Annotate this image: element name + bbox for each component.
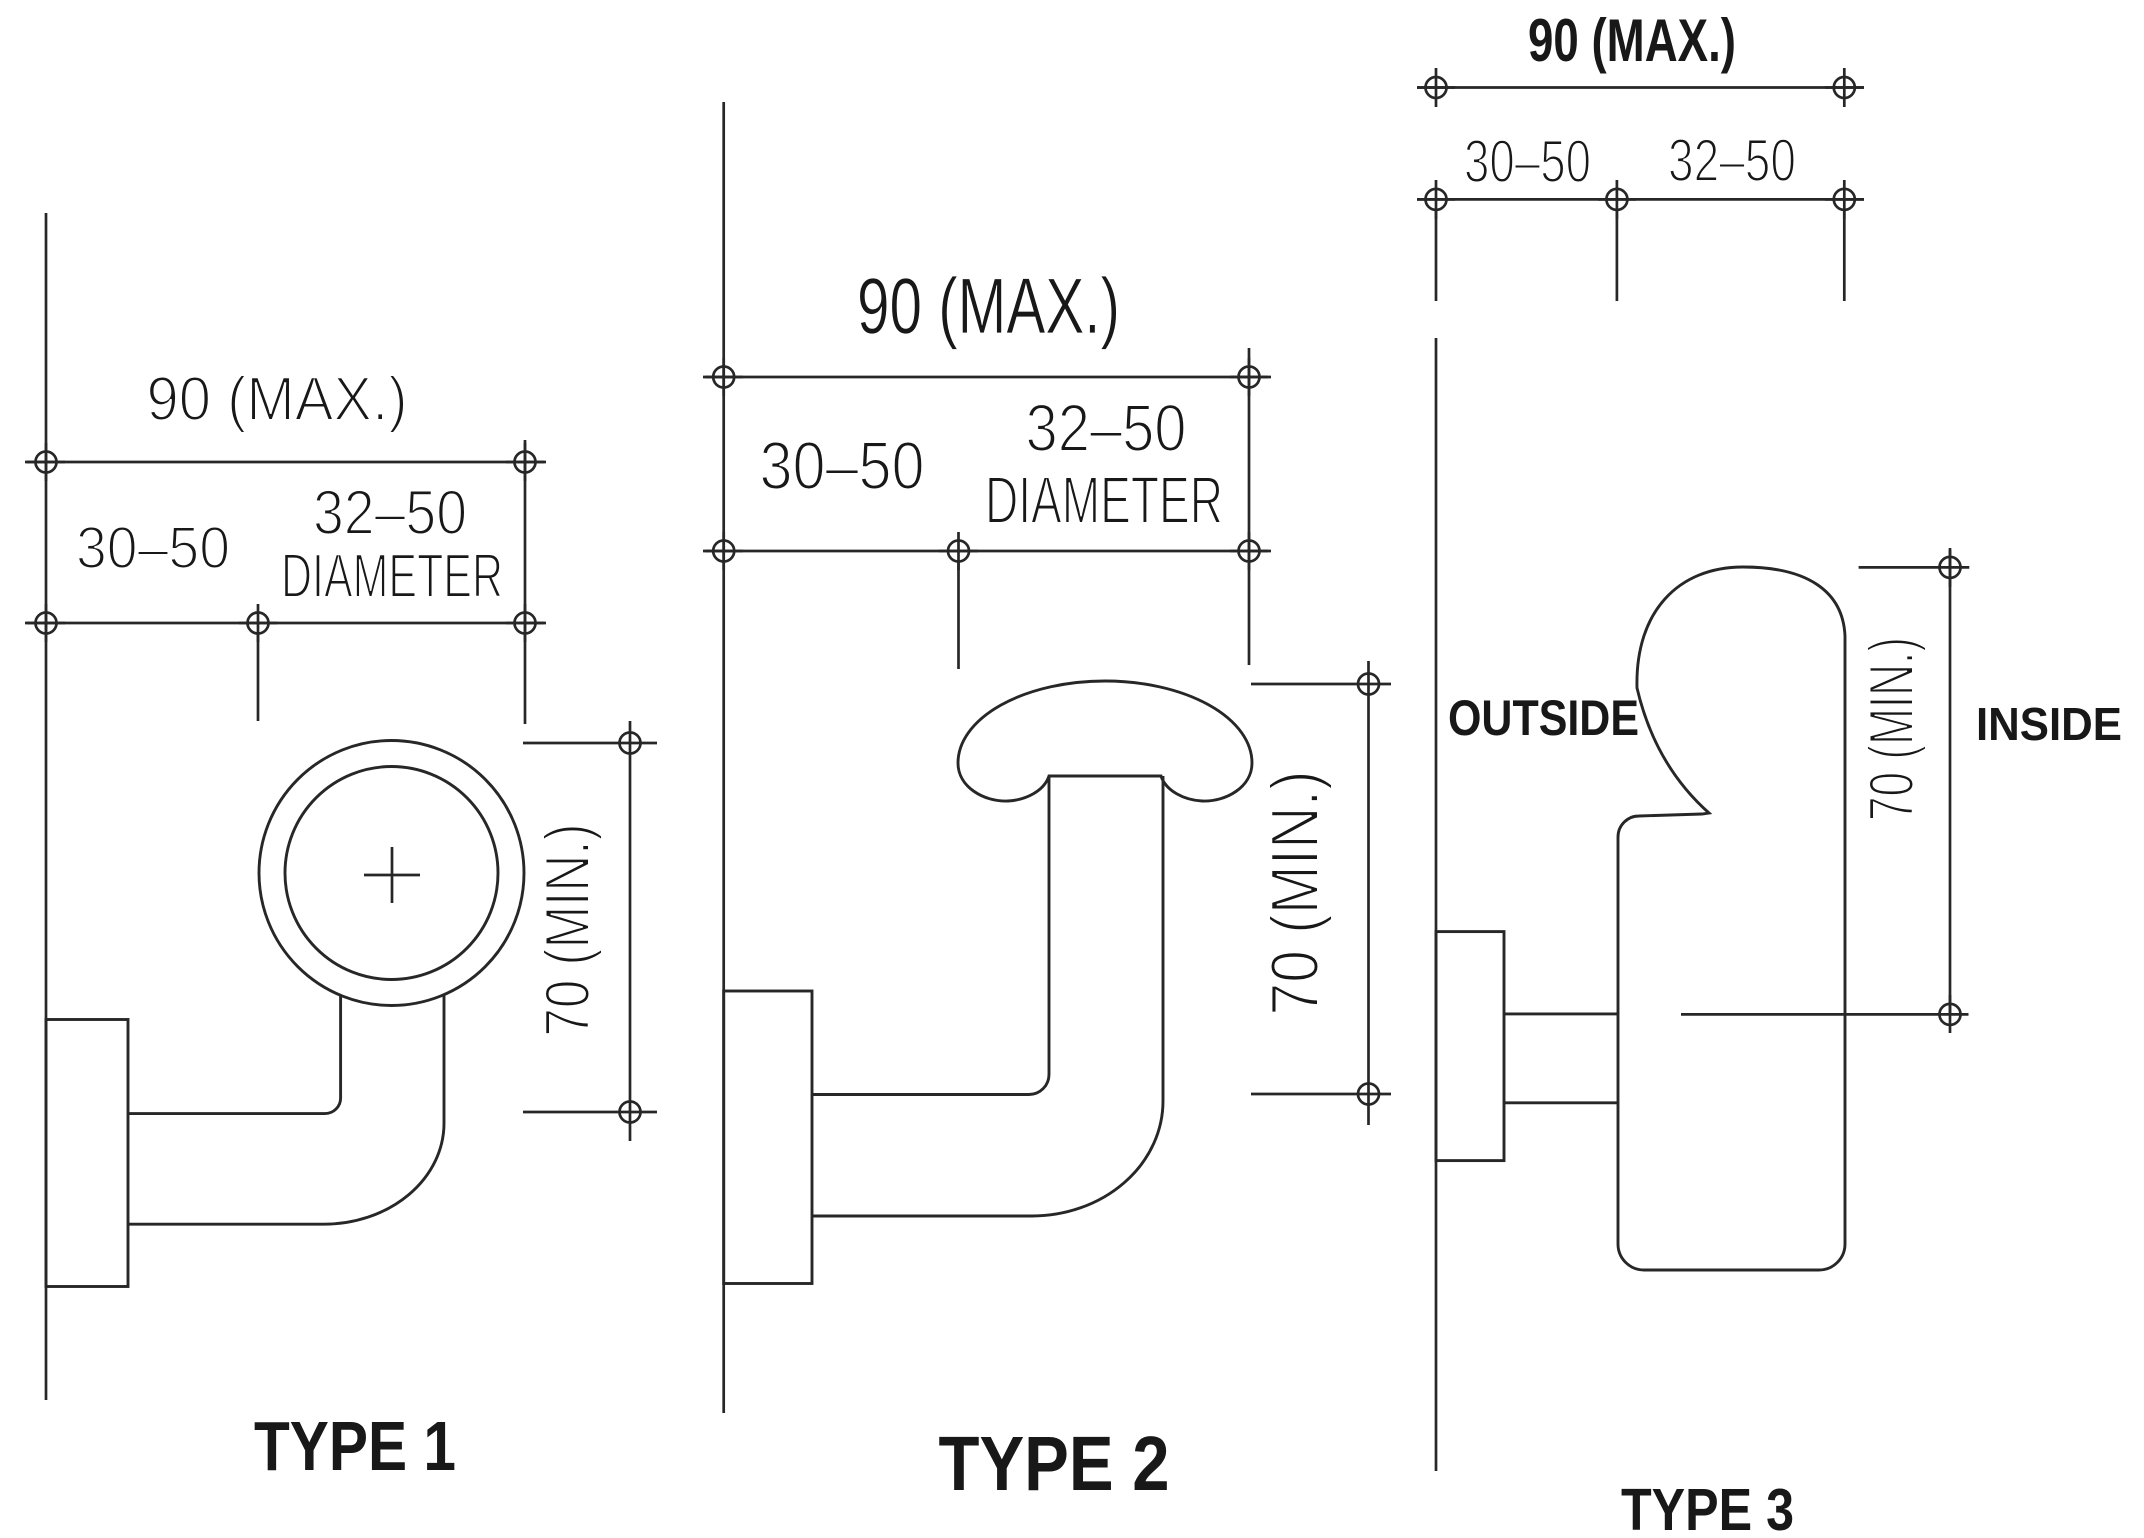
marker — [620, 1102, 641, 1123]
marker — [1230, 358, 1268, 396]
handrail inner circle T1 — [285, 767, 498, 980]
svg-text:TYPE 3: TYPE 3 — [1621, 1477, 1794, 1538]
svg-text:70 (MIN.): 70 (MIN.) — [1857, 637, 1927, 821]
dim 70 MIN T1 top tick — [523, 742, 657, 745]
dim line 30-50/32-50 T1 — [25, 622, 546, 625]
svg-text:30–50: 30–50 — [76, 515, 230, 581]
dim 70 MIN T2 bottom tick — [1251, 1093, 1391, 1096]
svg-text:90 (MAX.): 90 (MAX.) — [857, 261, 1120, 350]
marker — [1230, 532, 1268, 570]
marker — [1417, 180, 1455, 219]
marker — [27, 604, 65, 642]
svg-text:OUTSIDE: OUTSIDE — [1448, 690, 1639, 746]
bracket plate T3 — [1436, 932, 1504, 1161]
dim line 30-50/32-50 T3 — [1417, 198, 1864, 201]
svg-text:32–50: 32–50 — [313, 478, 467, 548]
marker — [1825, 180, 1864, 219]
dim line 90 MAX T2 — [703, 376, 1271, 379]
center cross T1 — [364, 847, 420, 903]
dim 70 MIN T3 top tick — [1859, 566, 1970, 569]
mushroom cap T2 — [958, 681, 1252, 801]
svg-text:TYPE 1: TYPE 1 — [254, 1407, 456, 1485]
extension line right T1 — [524, 440, 527, 724]
arm top edge T1 — [128, 995, 341, 1114]
marker — [705, 532, 743, 570]
arm bottom edge T3 — [1504, 1101, 1618, 1104]
svg-text:32–50: 32–50 — [1668, 127, 1796, 194]
marker — [1940, 548, 1961, 587]
handrail profile T3 — [1618, 567, 1845, 1270]
dim 70 MIN T3 vertical — [1949, 550, 1952, 1014]
svg-text:90 (MAX.): 90 (MAX.) — [147, 365, 408, 434]
extension line middle T1 — [257, 633, 260, 721]
svg-text:32–50: 32–50 — [1026, 391, 1187, 466]
marker — [620, 733, 641, 754]
marker — [1598, 180, 1636, 219]
bracket plate T1 — [46, 1020, 128, 1287]
bracket plate T2 — [724, 991, 812, 1284]
stem right edge T2 — [812, 776, 1163, 1216]
extension line middle T2 — [957, 561, 960, 669]
svg-text:90 (MAX.): 90 (MAX.) — [1528, 7, 1736, 74]
extension line left below T3 — [1435, 209, 1438, 301]
center line T3 — [1681, 1013, 1969, 1016]
svg-text:DIAMETER: DIAMETER — [281, 542, 503, 611]
wall line T3 — [1435, 338, 1438, 1471]
dim 70 MIN T1 bottom tick — [523, 1111, 657, 1114]
marker — [1417, 68, 1455, 107]
marker — [506, 604, 544, 642]
svg-text:TYPE 2: TYPE 2 — [939, 1421, 1170, 1507]
marker — [1358, 674, 1379, 695]
marker — [705, 358, 743, 396]
extension line middle below T3 — [1616, 209, 1619, 301]
handrail outer circle T1 — [259, 741, 524, 1006]
svg-text:30–50: 30–50 — [760, 428, 925, 504]
arm top edge T3 — [1504, 1012, 1618, 1015]
marker — [939, 532, 978, 570]
dim line 90 MAX T3 — [1417, 86, 1864, 89]
wall line T2 — [722, 102, 725, 1413]
dim line 30-50/32-50 T2 — [703, 550, 1271, 553]
dim line 90 MAX T1 — [25, 461, 546, 464]
marker — [27, 443, 65, 481]
svg-text:70 (MIN.): 70 (MIN.) — [1257, 771, 1333, 1016]
marker — [506, 443, 544, 481]
extension line right below T3 — [1843, 209, 1846, 301]
dim 70 MIN T2 vertical — [1367, 661, 1370, 1125]
wall line T1 — [45, 213, 48, 1400]
marker — [1825, 68, 1864, 107]
dim 70 MIN T2 top tick — [1251, 683, 1391, 686]
stem left edge T2 — [812, 776, 1049, 1095]
dim 70 MIN T1 vertical — [629, 721, 632, 1141]
svg-text:DIAMETER: DIAMETER — [985, 463, 1223, 538]
marker — [1940, 995, 1961, 1033]
svg-text:INSIDE: INSIDE — [1976, 698, 2122, 750]
arm bottom edge T1 — [128, 994, 444, 1224]
marker — [1358, 1084, 1379, 1105]
extension line right T2 — [1248, 348, 1251, 665]
marker — [239, 604, 277, 642]
svg-text:30–50: 30–50 — [1464, 128, 1591, 195]
svg-text:70 (MIN.): 70 (MIN.) — [533, 824, 603, 1037]
